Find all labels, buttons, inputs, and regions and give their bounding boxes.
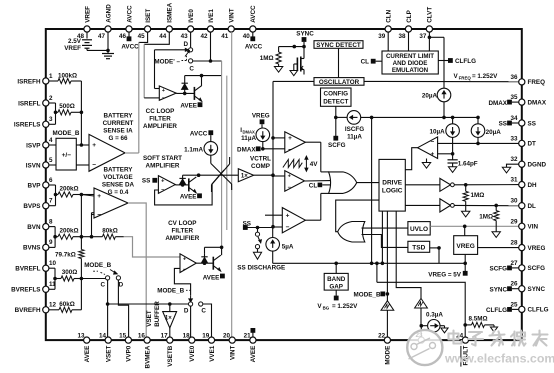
svg-text:VREG: VREG [252,112,270,119]
svg-text:37: 37 [419,33,427,40]
svg-text:VREF: VREF [64,45,81,52]
svg-text:VVE0: VVE0 [189,345,196,362]
svg-text:VINT: VINT [230,346,237,360]
svg-text:C: C [189,65,194,72]
svg-text:44: 44 [159,33,167,40]
svg-text:ISVN: ISVN [26,162,41,169]
svg-text:D: D [184,307,189,314]
svg-text:CLFLG: CLFLG [528,307,549,314]
svg-text:60kΩ: 60kΩ [59,301,75,308]
svg-text:CV LOOP: CV LOOP [168,220,196,227]
svg-text:40: 40 [243,33,251,40]
svg-text:5: 5 [49,157,53,164]
svg-text:CURRENT: CURRENT [103,120,134,127]
svg-text:FILTER: FILTER [172,228,194,235]
svg-text:C: C [201,307,206,314]
svg-text:AVCC: AVCC [121,44,139,51]
svg-text:SOFT START: SOFT START [143,155,182,162]
svg-text:G = 66: G = 66 [108,135,128,142]
svg-text:+: + [92,142,96,149]
svg-text:BVMEA: BVMEA [144,345,151,368]
svg-text:BG: BG [323,306,330,311]
svg-text:ISMEA: ISMEA [167,2,174,22]
svg-text:4V: 4V [310,161,319,168]
svg-text:+: + [97,193,101,200]
svg-text:BVREFLS: BVREFLS [11,287,40,294]
svg-text:VCTRL: VCTRL [250,156,271,163]
svg-text:SS: SS [499,121,507,128]
svg-text:79.7kΩ: 79.7kΩ [55,251,76,258]
svg-text:IVE0: IVE0 [188,9,195,23]
svg-text:C: C [101,281,106,288]
svg-text:SCFG: SCFG [490,266,508,273]
svg-text:43: 43 [181,33,189,40]
svg-text:SYNC: SYNC [528,286,546,293]
svg-text:DRIVE: DRIVE [382,179,403,186]
svg-text:BAND: BAND [327,276,346,283]
svg-text:CONFIG: CONFIG [324,90,349,97]
svg-text:ISVP: ISVP [26,142,40,149]
svg-text:8.5MΩ: 8.5MΩ [469,316,488,323]
svg-text:SYNC DETECT: SYNC DETECT [316,42,361,49]
svg-text:FILTER: FILTER [149,116,171,123]
svg-text:VINT: VINT [229,8,236,22]
svg-text:VREG: VREG [528,245,546,252]
svg-text:AVCC: AVCC [250,5,257,23]
svg-text:30: 30 [510,198,518,205]
svg-text:SENSE IA: SENSE IA [103,128,133,135]
svg-text:200kΩ: 200kΩ [59,186,78,193]
svg-text:39: 39 [378,33,386,40]
svg-text:BUFFER: BUFFER [154,301,161,327]
svg-text:CLN: CLN [386,9,393,22]
svg-text:33: 33 [510,135,518,142]
svg-text:D: D [183,41,188,48]
svg-text:1.64pF: 1.64pF [458,160,478,167]
svg-text:UVLO: UVLO [410,226,428,233]
svg-text:SYNC: SYNC [490,286,508,293]
svg-text:AVEE: AVEE [180,194,197,201]
svg-text:+: + [162,88,165,94]
svg-text:AVCC: AVCC [126,5,133,23]
svg-text:42: 42 [200,33,208,40]
svg-text:GAP: GAP [329,284,343,291]
svg-text:= 1.252V: = 1.252V [332,303,358,310]
svg-text:BVN: BVN [27,224,41,231]
svg-text:0.3µA: 0.3µA [426,312,443,319]
svg-text:VREF: VREF [84,6,91,23]
svg-text:DL: DL [528,203,537,210]
svg-text:DT: DT [528,141,537,148]
svg-text:AVCC: AVCC [245,44,263,51]
svg-text:SCFG: SCFG [328,142,346,149]
svg-text:1MΩ: 1MΩ [471,192,485,199]
svg-text:−: − [97,212,101,219]
svg-text:SS: SS [142,178,150,185]
svg-text:DMAX: DMAX [488,100,507,107]
svg-text:7: 7 [49,198,53,205]
svg-text:www.elecfans.com: www.elecfans.com [444,352,554,366]
svg-text:20µA: 20µA [422,93,438,100]
svg-text:11µA: 11µA [347,133,362,140]
svg-text:−: − [286,224,290,231]
svg-text:12: 12 [49,302,57,309]
svg-text:−: − [431,139,435,146]
svg-text:FREQ: FREQ [459,75,472,80]
svg-text:ISREFLS: ISREFLS [14,122,41,129]
svg-text:VREG = 5V: VREG = 5V [428,272,462,279]
svg-text:3: 3 [49,116,53,123]
svg-text:BATTERY: BATTERY [103,113,133,120]
svg-text:SENSE DA: SENSE DA [102,181,135,188]
svg-text:31: 31 [510,177,518,184]
svg-text:5µA: 5µA [282,244,294,251]
svg-text:BVNS: BVNS [23,245,41,252]
svg-text:G = 0.4: G = 0.4 [108,189,129,196]
svg-text:CL: CL [309,182,318,189]
svg-text:AMPLIFIER: AMPLIFIER [143,123,177,130]
svg-text:CLP: CLP [406,10,413,23]
svg-text:EMULATION: EMULATION [392,67,429,74]
svg-text:VSET: VSET [106,346,113,363]
svg-text:DETECT: DETECT [323,98,348,105]
svg-text:9: 9 [49,239,53,246]
svg-text:AVEE: AVEE [203,274,220,281]
svg-text:6: 6 [49,177,53,184]
svg-text:+: + [431,151,435,158]
svg-text:IVE1: IVE1 [208,9,215,23]
svg-text:COMP: COMP [251,163,270,170]
svg-text:VVE1: VVE1 [209,345,216,362]
svg-text:11µA: 11µA [241,135,256,142]
svg-text:SCFG: SCFG [528,265,546,272]
svg-text:AMPLIFIER: AMPLIFIER [146,163,180,170]
svg-text:2.5V: 2.5V [68,38,82,45]
svg-text:VVP0: VVP0 [126,345,133,362]
svg-text:AGND: AGND [105,4,112,23]
svg-text:23: 23 [415,332,423,339]
svg-text:BVREFH: BVREFH [15,307,41,314]
svg-text:VREG: VREG [456,243,474,250]
svg-text:1.1mA: 1.1mA [184,146,203,153]
svg-text:TSD: TSD [412,245,425,252]
svg-text:MODE: MODE [385,346,392,365]
svg-text:BVPS: BVPS [23,203,40,210]
svg-text:SYNC: SYNC [296,31,314,38]
svg-text:29: 29 [510,218,518,225]
svg-text:ISCFG: ISCFG [345,126,364,133]
svg-text:DGND: DGND [528,162,547,169]
svg-text:1MΩ: 1MΩ [479,214,493,221]
svg-text:MODE_B: MODE_B [354,292,381,299]
svg-text:CLFLG: CLFLG [486,307,507,314]
svg-text:DMAX: DMAX [243,130,256,135]
svg-text:1MΩ: 1MΩ [260,55,274,62]
svg-text:47: 47 [98,33,106,40]
svg-text:8: 8 [49,218,53,225]
svg-text:MODE_B: MODE_B [53,130,80,137]
svg-text:32: 32 [510,156,518,163]
svg-text:CLFLG: CLFLG [455,58,476,65]
svg-text:AMPLIFIER: AMPLIFIER [165,235,199,242]
svg-text:38: 38 [398,33,406,40]
svg-text:BVREFL: BVREFL [15,266,40,273]
svg-text:VOLTAGE: VOLTAGE [103,174,133,181]
svg-text:45: 45 [138,33,146,40]
svg-text:+: + [286,212,290,219]
svg-text:SS: SS [528,120,536,127]
svg-text:200kΩ: 200kΩ [59,227,78,234]
svg-text:AVEE: AVEE [250,346,257,363]
svg-text:AND DIODE: AND DIODE [393,60,428,67]
svg-text:MODE' –: MODE' – [154,58,180,65]
svg-text:SS DISCHARGE: SS DISCHARGE [237,265,285,272]
svg-text:2: 2 [49,95,53,102]
svg-text:CL: CL [361,59,370,66]
svg-text:MODE_B: MODE_B [157,288,184,295]
svg-text:= 1.252V: = 1.252V [472,73,498,80]
svg-text:VSETB: VSETB [167,345,174,366]
svg-text:100kΩ: 100kΩ [58,73,77,80]
svg-text:300Ω: 300Ω [62,269,78,276]
svg-text:−: − [288,146,292,153]
svg-text:CLVT: CLVT [427,7,434,23]
svg-text:36: 36 [510,74,518,81]
svg-text:D: D [119,281,124,288]
svg-text:DMAX: DMAX [528,99,547,106]
svg-text:VIN: VIN [528,224,539,231]
svg-text:MODE_B: MODE_B [84,262,111,269]
svg-text:−: − [92,162,96,169]
svg-text:VSET: VSET [146,310,153,327]
svg-text:10µA: 10µA [430,129,446,136]
svg-text:ISREFH: ISREFH [17,78,41,85]
svg-text:+: + [288,135,292,142]
svg-text:10: 10 [49,260,57,267]
svg-text:80kΩ: 80kΩ [102,227,118,234]
svg-text:28: 28 [510,240,518,247]
svg-text:+/−: +/− [62,152,72,159]
svg-text:20µA: 20µA [486,129,502,136]
svg-text:CURRENT LIMIT: CURRENT LIMIT [386,53,434,60]
svg-text:ISREFL: ISREFL [18,100,41,107]
svg-text:AVCC: AVCC [190,130,208,137]
svg-text:BATTERY: BATTERY [103,166,133,173]
svg-text:46: 46 [119,33,127,40]
svg-text:1: 1 [49,73,53,80]
svg-text:4: 4 [49,137,53,144]
svg-text:OSCILLATOR: OSCILLATOR [319,79,360,86]
svg-text:AVEE: AVEE [84,346,91,363]
svg-text:−: − [162,96,165,102]
svg-text:ISET: ISET [145,9,152,23]
svg-text:FREQ: FREQ [528,79,546,86]
svg-text:1×: 1× [241,173,248,179]
svg-text:DMAX: DMAX [237,146,256,153]
svg-text:500Ω: 500Ω [59,103,75,110]
svg-text:CC LOOP: CC LOOP [146,108,175,115]
svg-text:1×: 1× [165,316,172,322]
svg-text:DH: DH [528,182,538,189]
svg-text:LOGIC: LOGIC [382,187,403,194]
svg-text:41: 41 [221,33,229,40]
svg-text:BVP: BVP [28,182,41,189]
svg-text:AVEE: AVEE [180,103,197,110]
